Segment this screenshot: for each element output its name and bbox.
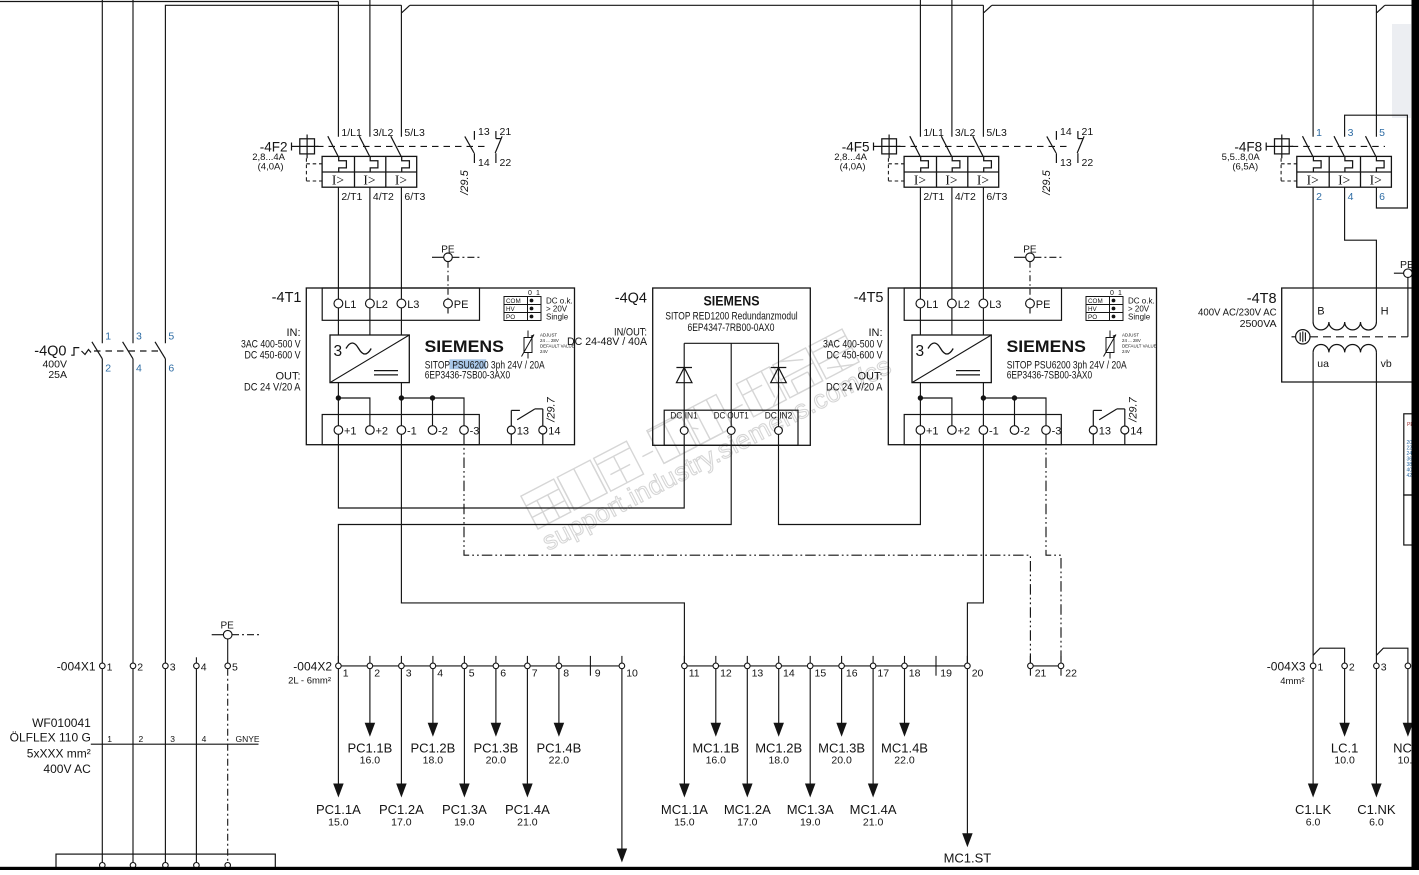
cross horizontal <box>882 145 901 147</box>
terminal -2 <box>428 426 437 435</box>
svg-text:16: 16 <box>846 668 858 680</box>
svg-text:ÖLFLEX 110 G: ÖLFLEX 110 G <box>10 730 91 744</box>
bridge -1/-2/-3 <box>401 398 464 426</box>
svg-text:I>: I> <box>1307 172 1319 187</box>
terminal -004X2:15 <box>807 663 813 669</box>
svg-text:3: 3 <box>136 331 142 343</box>
handle tick <box>873 143 875 151</box>
wire -4Q0 pole 4 down to -004X1:2 <box>132 359 134 663</box>
terminal -3 <box>460 426 469 435</box>
cross actuator box <box>882 139 897 154</box>
terminal -004X1:2 <box>130 663 136 669</box>
svg-text:SIEMENS: SIEMENS <box>1007 338 1086 356</box>
terminal L3 <box>979 299 988 308</box>
pole blade 5/L3 <box>391 136 402 157</box>
svg-text:/29.5: /29.5 <box>459 169 471 195</box>
terminal PE <box>1026 299 1035 308</box>
PE stub below terminal <box>1029 308 1031 314</box>
svg-text:L1: L1 <box>344 299 356 311</box>
svg-text:COM: COM <box>1088 298 1103 305</box>
svg-text:DC 24 V/20 A: DC 24 V/20 A <box>244 382 301 394</box>
svg-text:18.0: 18.0 <box>768 755 789 767</box>
svg-text:5/L3: 5/L3 <box>404 127 425 139</box>
svg-text:5: 5 <box>1379 127 1385 139</box>
center rail to DC OUT1 <box>730 343 732 426</box>
node branch jog at -4F2 L3 <box>402 5 410 12</box>
svg-text:-4Q4: -4Q4 <box>615 291 647 307</box>
bottom terminal <box>130 863 136 869</box>
svg-text:15.0: 15.0 <box>674 817 695 829</box>
wire L1 to rectifier <box>919 308 921 335</box>
svg-text:ADJUST: ADJUST <box>1122 333 1139 338</box>
svg-text:22: 22 <box>1065 668 1077 680</box>
wire L2 to rectifier <box>369 308 371 335</box>
cross horizontal <box>300 145 319 147</box>
wire to MC1.1B <box>715 669 717 725</box>
svg-text:21.0: 21.0 <box>863 817 884 829</box>
dashed trip linkage vertical <box>305 158 307 181</box>
svg-text:/29.5: /29.5 <box>1041 169 1053 195</box>
terminal -004X1:3 <box>163 663 169 669</box>
LED status table <box>504 297 541 321</box>
svg-text:MC1.2B: MC1.2B <box>755 741 802 756</box>
breaker housing <box>322 156 417 187</box>
wire L1 bus drop to -4F2 pole 1/L1 <box>337 2 339 137</box>
terminal stub 12 <box>715 656 717 663</box>
terminal +2 <box>948 426 957 435</box>
svg-text:H: H <box>1381 306 1389 318</box>
svg-text:22.0: 22.0 <box>549 755 570 767</box>
stub below <box>1029 669 1031 676</box>
dashed trip linkage vertical <box>887 158 889 181</box>
pole blade 3 <box>1334 136 1345 157</box>
pole blade 1/L1 <box>910 136 921 157</box>
svg-text:3/L2: 3/L2 <box>373 127 394 139</box>
wire to MC1.1A <box>683 669 685 785</box>
terminal -004X2:13 <box>745 663 751 669</box>
svg-text:14: 14 <box>783 668 795 680</box>
svg-text:11: 11 <box>689 668 700 680</box>
wire L3 bus drop to -4F5 pole 5/L3 <box>982 5 984 137</box>
svg-text:13: 13 <box>478 126 490 138</box>
terminal tick 9 <box>589 656 591 676</box>
svg-text:2: 2 <box>374 668 380 680</box>
svg-text:22.0: 22.0 <box>894 755 915 767</box>
circuit breaker -4F8 <box>1222 127 1392 203</box>
terminal -004X2:18 <box>902 663 908 669</box>
svg-text:5/L3: 5/L3 <box>986 127 1007 139</box>
svg-text:14: 14 <box>478 157 490 169</box>
svg-text:I>: I> <box>363 172 375 187</box>
svg-text:6.0: 6.0 <box>1306 817 1321 829</box>
wire 6/T3 to -4T5 L3 <box>982 187 984 299</box>
svg-text:MC1.4A: MC1.4A <box>850 802 897 817</box>
svg-text:-3: -3 <box>1052 425 1062 437</box>
svg-text:+2: +2 <box>376 425 389 437</box>
svg-text:15.0: 15.0 <box>328 817 349 829</box>
wire L2 to rectifier <box>951 308 953 335</box>
svg-text:20: 20 <box>972 668 984 680</box>
wire L3 to rectifier <box>982 308 984 335</box>
signalling contact 13/14 <box>1092 410 1094 425</box>
adjust potentiometer symbol <box>1109 331 1111 338</box>
thermal overload element pole 2 <box>952 156 960 172</box>
terminal strip -004X3 <box>1267 659 1418 687</box>
bridge -1/-2/-3 <box>983 398 1046 426</box>
svg-text:DC IN1: DC IN1 <box>670 411 698 421</box>
wire to PC1.2A <box>400 669 402 785</box>
svg-text:PC1.4B: PC1.4B <box>536 741 581 756</box>
svg-text:6EP3436-7SB00-3AX0: 6EP3436-7SB00-3AX0 <box>425 370 510 382</box>
svg-text:3: 3 <box>334 343 343 360</box>
dashed trip linkage lower <box>888 180 904 182</box>
terminal stub 7 <box>526 656 528 663</box>
terminal stub 10 <box>621 656 623 663</box>
wire to NC.1 <box>1407 669 1409 725</box>
wire rectifier + output <box>919 383 921 426</box>
svg-text:DC OUT1: DC OUT1 <box>714 411 749 421</box>
aux NC contact 21/22 <box>495 131 497 139</box>
wire -004X1:3 down <box>164 669 166 866</box>
svg-text:14: 14 <box>548 425 560 437</box>
terminal -004X2:14 <box>776 663 782 669</box>
pole blade 1/L1 <box>328 136 339 157</box>
dashed trip linkage upper <box>1281 163 1297 165</box>
terminal -1 <box>397 426 406 435</box>
svg-text:18.0: 18.0 <box>423 755 444 767</box>
svg-text:1: 1 <box>536 290 540 297</box>
bridge +1/+2 <box>920 398 952 426</box>
wire L3 bus segment to -4F8 <box>992 4 1377 6</box>
terminal L1 <box>916 299 925 308</box>
terminal stub 21 <box>1029 656 1031 663</box>
svg-text:SIEMENS: SIEMENS <box>425 338 504 356</box>
cross vertical <box>888 135 890 159</box>
svg-text:18: 18 <box>909 668 921 680</box>
svg-text:LC.1: LC.1 <box>1331 741 1358 756</box>
branch jog to -004X3:2 <box>1313 648 1345 663</box>
stub -2 <box>432 398 434 426</box>
svg-text:6: 6 <box>1379 191 1385 203</box>
input terminal strip <box>322 288 479 320</box>
core <box>1310 336 1408 338</box>
terminal stub 1 <box>337 656 339 663</box>
terminal strip <box>664 410 798 445</box>
terminal -004X2:22 <box>1058 663 1064 669</box>
svg-text:SIEMENS: SIEMENS <box>704 293 760 308</box>
svg-text:14: 14 <box>1130 425 1142 437</box>
wire 2/T1 to -4T1 L1 <box>337 187 339 299</box>
svg-text:L2: L2 <box>958 299 970 311</box>
terminal -004X2:5 <box>462 663 468 669</box>
svg-text:1: 1 <box>105 331 111 343</box>
svg-text:6: 6 <box>168 363 174 375</box>
svg-text:PE: PE <box>454 299 469 311</box>
svg-text:6.0: 6.0 <box>1369 817 1384 829</box>
wire -004X1:1 down <box>101 669 103 866</box>
wire L3 bus drop to -4F2 pole 5/L3 <box>400 5 402 137</box>
wire -4T1 +1 to -4Q4 DC IN1 <box>338 434 684 508</box>
svg-text:3: 3 <box>1348 127 1354 139</box>
svg-text:4: 4 <box>136 363 142 375</box>
pole blade 3/L2 <box>941 136 952 157</box>
svg-text:/29.7: /29.7 <box>1127 396 1139 422</box>
transformer housing <box>1282 288 1419 382</box>
rail 1-10 <box>338 665 622 667</box>
terminal strip -004X1 <box>57 621 261 674</box>
svg-text:(6,5A): (6,5A) <box>1232 161 1258 172</box>
transformer -4T8 <box>1198 259 1419 382</box>
breaker housing <box>904 156 999 187</box>
secondary winding <box>1313 344 1376 352</box>
svg-text:-4T5: -4T5 <box>854 290 884 306</box>
terminal -004X3:3 <box>1374 663 1380 669</box>
node branch jog at -4F8 <box>1377 5 1385 12</box>
svg-text:4: 4 <box>202 734 207 744</box>
redundancy module -4Q4 SITOP RED1200 <box>567 288 810 445</box>
svg-text:Single: Single <box>1128 312 1151 321</box>
thermal overload element pole 1 <box>921 156 929 172</box>
svg-text:WF010041: WF010041 <box>32 716 91 730</box>
cable WF010041 <box>10 716 260 776</box>
svg-text:19.0: 19.0 <box>454 817 475 829</box>
svg-text:6/T3: 6/T3 <box>404 191 425 203</box>
terminal L3 <box>397 299 406 308</box>
svg-text:DC 450-600 V: DC 450-600 V <box>245 350 302 362</box>
svg-text:0: 0 <box>528 290 532 297</box>
bottom terminal <box>163 863 169 869</box>
wire L2 riser to top for -4F2 pole 3/L2 <box>369 0 371 137</box>
terminal tick 19 <box>935 656 937 676</box>
wire riser to top -4F5 pole 1/L1 <box>919 0 921 137</box>
wire to MC1.3A <box>809 669 811 785</box>
LED status table <box>1086 297 1123 321</box>
svg-text:-2: -2 <box>438 425 448 437</box>
svg-text:B: B <box>1317 306 1324 318</box>
svg-text:6EP3436-7SB00-3AX0: 6EP3436-7SB00-3AX0 <box>1007 370 1092 382</box>
svg-text:13: 13 <box>752 668 764 680</box>
cell divider 1 <box>354 156 356 187</box>
svg-text:1: 1 <box>107 734 112 744</box>
svg-text:DC IN2: DC IN2 <box>765 411 793 421</box>
svg-text:3/L2: 3/L2 <box>955 127 976 139</box>
svg-text:21: 21 <box>1035 668 1047 680</box>
terminal stub 14 <box>778 656 780 663</box>
svg-text:PO: PO <box>1088 314 1097 321</box>
svg-text:4mm²: 4mm² <box>1280 676 1304 687</box>
terminal -004X2:17 <box>870 663 876 669</box>
svg-text:400V AC: 400V AC <box>43 762 91 776</box>
svg-text:-1: -1 <box>407 425 417 437</box>
svg-text:+1: +1 <box>344 425 357 437</box>
cross actuator box <box>300 139 315 154</box>
terminal -004X2:16 <box>839 663 845 669</box>
wire -4F8 pole 6 loop up to pole 3 <box>1345 115 1408 208</box>
terminal PE <box>444 299 453 308</box>
svg-text:L3: L3 <box>989 299 1001 311</box>
dashed linkage -4Q0 <box>94 350 158 352</box>
svg-text:-4T8: -4T8 <box>1247 291 1277 307</box>
svg-text:22: 22 <box>1082 157 1094 169</box>
trip symbol <box>71 348 79 356</box>
terminal stub 18 <box>904 656 906 663</box>
svg-text:MC1.1A: MC1.1A <box>661 802 708 817</box>
svg-text:15: 15 <box>815 668 827 680</box>
PE stub below terminal <box>447 308 449 314</box>
wire -4Q0 pole 2 down to -004X1:1 <box>101 359 103 663</box>
diode D2 <box>778 343 780 426</box>
svg-text:+2: +2 <box>958 425 971 437</box>
terminal -004X3:4 <box>1405 663 1411 669</box>
switch pole blade 5/6 <box>155 342 165 359</box>
stub below <box>1060 669 1062 676</box>
svg-text:19: 19 <box>940 668 952 680</box>
wire L3 bus segment to -4F5 <box>410 4 984 6</box>
cable line <box>91 743 259 745</box>
cross reference box right edge <box>1404 414 1419 545</box>
svg-text:PC1.2A: PC1.2A <box>379 802 424 817</box>
svg-text:I>: I> <box>395 172 407 187</box>
junction dot + <box>918 395 923 400</box>
svg-text:I>: I> <box>1338 172 1350 187</box>
wire -004X1:2 down <box>132 669 134 866</box>
svg-text:2: 2 <box>1349 661 1355 673</box>
terminal stub 13 <box>746 656 748 663</box>
watermark siemens support <box>521 329 859 529</box>
handle stem <box>292 145 300 147</box>
svg-text:3: 3 <box>170 661 176 673</box>
terminal -004X2:20 <box>965 663 971 669</box>
terminal stub 15 <box>809 656 811 663</box>
wire PE to core <box>1407 278 1409 337</box>
svg-text:12: 12 <box>720 668 732 680</box>
svg-text:24 ... 28V: 24 ... 28V <box>540 338 559 343</box>
wire to MC1.2B <box>778 669 780 725</box>
wire -4T1 -1 to -004X2:11 <box>401 434 684 663</box>
dashed trip linkage upper <box>306 163 322 165</box>
svg-text:1: 1 <box>343 668 349 680</box>
wire phase 1 from top to -4Q0 <box>101 0 103 343</box>
wire -4T5 -1 to -004X2:20 <box>967 434 983 663</box>
thermal overload element pole 3 <box>1376 156 1384 172</box>
svg-text:8: 8 <box>563 668 569 680</box>
svg-text:5: 5 <box>232 661 238 673</box>
terminal stub 17 <box>872 656 874 663</box>
pole blade 5 <box>1366 136 1377 157</box>
wire 2/T1 to -4T5 L1 <box>919 187 921 299</box>
svg-text:24V: 24V <box>1122 349 1130 354</box>
svg-text:4: 4 <box>1348 191 1354 203</box>
wire -4F8 pin 4 to -4T8 H <box>1345 187 1377 322</box>
wire to C1.NK <box>1375 669 1377 785</box>
dashed linkage -4F5 <box>899 145 1071 147</box>
page border bottom <box>0 867 1419 870</box>
terminal -004X2:21 <box>1028 663 1034 669</box>
dashed trip linkage lower <box>1281 180 1297 182</box>
svg-text:7: 7 <box>532 668 538 680</box>
svg-text:DC 24-48V / 40A: DC 24-48V / 40A <box>567 336 648 348</box>
breaker housing <box>1297 156 1392 187</box>
terminal DC IN1 <box>680 427 688 435</box>
svg-text:24 ... 28V: 24 ... 28V <box>1122 338 1141 343</box>
aux NO contact 13/14 <box>473 131 475 140</box>
svg-text:3: 3 <box>170 734 175 744</box>
wire -004X1:4 down <box>195 669 197 866</box>
svg-text:6EP4347-7RB00-0AX0: 6EP4347-7RB00-0AX0 <box>688 322 775 334</box>
svg-text:DC 450-600 V: DC 450-600 V <box>827 350 884 362</box>
svg-text:I>: I> <box>1370 172 1382 187</box>
wire rectifier - output <box>982 383 984 426</box>
svg-text:4: 4 <box>437 668 443 680</box>
svg-text:PC1.4A: PC1.4A <box>505 802 550 817</box>
svg-text:3: 3 <box>1381 661 1387 673</box>
svg-text:vb: vb <box>1381 358 1392 370</box>
thermal overload element pole 2 <box>1345 156 1353 172</box>
thermal overload element pole 1 <box>1313 156 1321 172</box>
svg-text:22: 22 <box>500 157 512 169</box>
decorative shading <box>1392 24 1411 118</box>
svg-text:Single: Single <box>546 312 569 321</box>
svg-text:5xXXX mm²: 5xXXX mm² <box>27 746 91 760</box>
svg-text:MC1.2A: MC1.2A <box>724 802 771 817</box>
terminal +2 <box>366 426 375 435</box>
terminal DC OUT1 <box>727 427 735 435</box>
svg-text:HV: HV <box>506 306 516 313</box>
terminal stub 20 <box>966 656 968 663</box>
wire to LC.1 <box>1344 669 1346 725</box>
svg-text:HV: HV <box>1088 306 1098 313</box>
terminal DC IN2 <box>775 427 783 435</box>
terminal +1 <box>334 426 343 435</box>
terminal -004X3:1 <box>1310 663 1316 669</box>
junction dot + <box>336 395 341 400</box>
svg-text:MC1.3A: MC1.3A <box>787 802 834 817</box>
wire PE -4T5 -3 to -004X2:22 <box>1046 434 1061 663</box>
cell divider 1 <box>1328 156 1330 187</box>
svg-text:1: 1 <box>107 661 113 673</box>
pole blade 5/L3 <box>973 136 984 157</box>
wire to MC1.2A <box>746 669 748 785</box>
svg-text:2/T1: 2/T1 <box>341 191 362 203</box>
wire L3 to rectifier <box>400 308 402 335</box>
svg-text:14: 14 <box>1060 126 1072 138</box>
wire L3 bus from -4Q0 pole 5 <box>165 5 401 343</box>
wire 6/T3 to -4T1 L3 <box>400 187 402 299</box>
terminal -004X2:6 <box>493 663 499 669</box>
wire -4T5 +1 to -4Q4 DC IN2 <box>779 434 921 524</box>
terminal -004X2:7 <box>525 663 531 669</box>
svg-text:PC1.1A: PC1.1A <box>316 802 361 817</box>
cell divider 1 <box>936 156 938 187</box>
terminal stub 8 <box>558 656 560 663</box>
svg-text:DC 24 V/20 A: DC 24 V/20 A <box>826 382 883 394</box>
wire rectifier - output <box>400 383 402 426</box>
row divider <box>1297 171 1392 173</box>
rail 21-22 <box>1030 665 1061 667</box>
svg-text:-4T1: -4T1 <box>272 290 302 306</box>
terminal -004X2:11 <box>682 663 688 669</box>
svg-text:42: 42 <box>1407 473 1413 479</box>
terminal -004X1:5 <box>225 663 231 669</box>
svg-text:DEFAULT VALUE: DEFAULT VALUE <box>1122 344 1157 349</box>
row divider <box>322 171 417 173</box>
terminal -004X2:4 <box>430 663 436 669</box>
terminal -2 <box>1010 426 1019 435</box>
terminal stub 22 <box>1060 656 1062 663</box>
svg-text:2L - 6mm²: 2L - 6mm² <box>288 675 331 686</box>
svg-text:4/T2: 4/T2 <box>373 191 394 203</box>
dashed trip linkage lower <box>306 180 322 182</box>
